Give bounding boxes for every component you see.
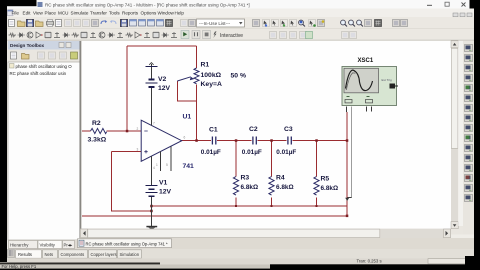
svg-text:741: 741 <box>183 163 195 170</box>
svg-text:R5: R5 <box>321 176 330 183</box>
svg-text:4: 4 <box>153 166 155 170</box>
svg-text:RC phase shift oscillator usin: RC phase shift oscillator using Op-Amp 7… <box>45 2 250 7</box>
svg-text:12V: 12V <box>158 85 171 92</box>
svg-text:Transfer: Transfer <box>90 11 107 16</box>
svg-text:U1: U1 <box>183 114 192 121</box>
svg-text:Design Toolbox: Design Toolbox <box>10 43 45 48</box>
svg-text:Ext Trig: Ext Trig <box>382 78 393 82</box>
svg-text:R4: R4 <box>276 175 285 182</box>
svg-text:Simulation: Simulation <box>120 252 140 257</box>
svg-text:0.01µF: 0.01µF <box>276 149 296 156</box>
svg-text:Copper layers: Copper layers <box>91 252 117 257</box>
svg-text:6: 6 <box>184 136 186 140</box>
svg-text:For Help, press F1: For Help, press F1 <box>2 264 37 269</box>
svg-text:5: 5 <box>166 163 168 167</box>
svg-text:Key=A: Key=A <box>201 81 222 88</box>
svg-text:0.01µF: 0.01µF <box>242 149 262 156</box>
svg-text:Reports: Reports <box>122 11 139 16</box>
svg-text:MCU: MCU <box>58 11 68 16</box>
svg-text:100kΩ: 100kΩ <box>201 72 222 79</box>
svg-text:Nets: Nets <box>45 252 54 257</box>
svg-text:---In-Use List---: ---In-Use List--- <box>199 21 231 26</box>
svg-text:6.8kΩ: 6.8kΩ <box>241 184 259 191</box>
svg-text:R3: R3 <box>241 175 250 182</box>
svg-text:Hierarchy: Hierarchy <box>10 243 29 248</box>
svg-text:phase shift oscillator using O: phase shift oscillator using O <box>16 64 73 69</box>
svg-text:Tran: 0.253 s: Tran: 0.253 s <box>357 259 382 264</box>
svg-text:C2: C2 <box>249 126 258 133</box>
svg-text:3: 3 <box>137 148 139 152</box>
svg-text:Options: Options <box>141 11 158 16</box>
svg-text:6.8kΩ: 6.8kΩ <box>321 185 339 192</box>
svg-text:Place: Place <box>45 11 57 16</box>
svg-text:RC phase shift oscillator usin: RC phase shift oscillator usin <box>10 71 67 76</box>
svg-text:Tools: Tools <box>109 11 120 16</box>
svg-text:Results: Results <box>18 252 32 257</box>
svg-text:R1: R1 <box>201 62 210 69</box>
svg-text:2: 2 <box>137 127 139 131</box>
svg-text:12V: 12V <box>159 189 172 196</box>
svg-text:Components: Components <box>61 252 85 257</box>
svg-text:Interactive: Interactive <box>220 33 243 39</box>
svg-text:V1: V1 <box>159 180 168 187</box>
svg-text:3.3kΩ: 3.3kΩ <box>88 137 107 144</box>
svg-text:Help: Help <box>175 11 185 16</box>
svg-text:View: View <box>33 11 44 16</box>
svg-text:File: File <box>12 11 20 16</box>
svg-text:Visibility: Visibility <box>40 243 56 248</box>
svg-text:XSC1: XSC1 <box>358 58 374 64</box>
svg-text:7: 7 <box>153 122 155 126</box>
svg-text:R2: R2 <box>92 120 101 127</box>
svg-text:RC phase shift oscillator usin: RC phase shift oscillator using Op-Amp 7… <box>86 242 169 247</box>
svg-text:Pr◂▸: Pr◂▸ <box>64 243 73 248</box>
svg-text:0.01µF: 0.01µF <box>201 149 221 156</box>
svg-text:C3: C3 <box>284 126 293 133</box>
svg-text:V2: V2 <box>158 76 167 83</box>
svg-text:Edit: Edit <box>23 11 32 16</box>
svg-text:6.8kΩ: 6.8kΩ <box>276 184 294 191</box>
svg-text:Window: Window <box>158 11 175 16</box>
svg-text:Simulate: Simulate <box>71 11 89 16</box>
svg-text:50 %: 50 % <box>231 73 247 80</box>
svg-text:C1: C1 <box>209 127 218 134</box>
svg-text:1: 1 <box>156 163 158 167</box>
